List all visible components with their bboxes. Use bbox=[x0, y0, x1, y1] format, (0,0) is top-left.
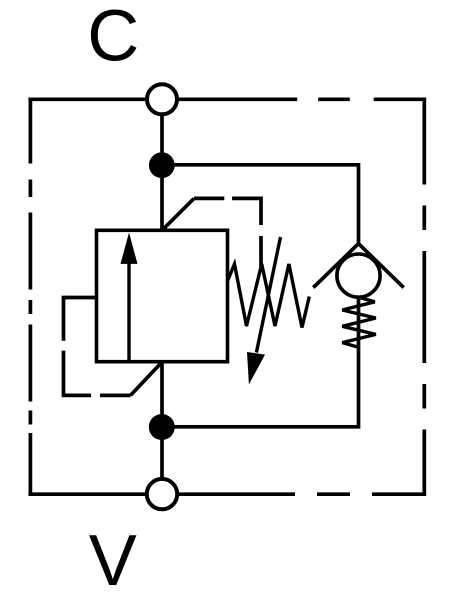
wire: node A to check valve top bbox=[162, 165, 359, 244]
cartridge envelope bottom edge (dash-dot) bbox=[28, 492, 426, 496]
drain line: solid diagonal to valve bottom bbox=[131, 362, 163, 395]
port C (circle on envelope) bbox=[147, 84, 177, 114]
cartridge envelope left edge (dash-dot) bbox=[29, 98, 33, 497]
pilot line: solid diagonal from valve top bbox=[162, 198, 194, 230]
cartridge envelope right edge (dash-dot) bbox=[422, 98, 426, 497]
pilot line: dashed run to spring (over the top, down to spring) bbox=[194, 197, 263, 266]
cartridge envelope top edge (dash-dot) bbox=[28, 97, 426, 101]
node B (junction dot) bbox=[149, 414, 175, 440]
adjustable spring (zigzag) right of valve body bbox=[228, 264, 310, 328]
wire: check valve spring down and left to node B bbox=[162, 297, 359, 427]
flow arrow head bbox=[121, 233, 138, 264]
wire: valve outlet down to port V bbox=[160, 362, 164, 479]
relief valve main stage (square body) bbox=[97, 230, 228, 361]
drain line: solid stub left of valve body bbox=[64, 296, 97, 300]
check valve seat (V) bbox=[313, 244, 403, 288]
node A (junction dot) bbox=[149, 152, 175, 178]
svg-text:C: C bbox=[87, 0, 139, 77]
flow arrow inside valve body (shaft) bbox=[127, 262, 130, 362]
check valve ball (circle) bbox=[337, 254, 380, 297]
svg-text:V: V bbox=[89, 521, 137, 600]
wire: port C down to valve inlet bbox=[160, 114, 164, 230]
adjustment arrow head bbox=[247, 352, 265, 384]
port V (circle on envelope) bbox=[147, 479, 177, 509]
check valve spring (zigzag) bbox=[342, 297, 376, 347]
drain line: dashed left loop down to pilot diagonal bbox=[62, 296, 131, 398]
adjustment arrow (diagonal through spring, shaft) bbox=[256, 237, 280, 353]
